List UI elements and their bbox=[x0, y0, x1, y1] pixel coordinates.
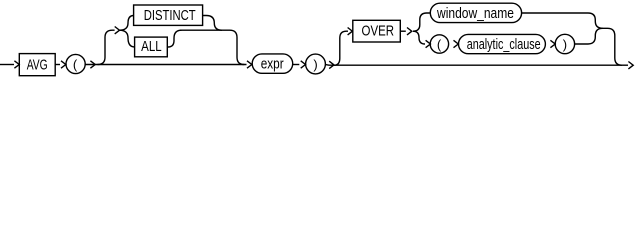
svg-text:(: ( bbox=[437, 37, 442, 52]
svg-text:ALL: ALL bbox=[141, 39, 162, 55]
wire: window_name exit curve down bbox=[522, 13, 603, 28]
arrowhead into analytic_clause bbox=[454, 40, 459, 47]
wire: OVER to split bbox=[400, 30, 406, 32]
wire: main baseline bypass under DISTINCT/ALL bbox=[85, 64, 246, 66]
arrowhead into ( of analytic bbox=[426, 40, 431, 47]
keyword box DISTINCT bbox=[134, 5, 203, 25]
syntax diagram: AVG analytic function bbox=[0, 0, 635, 79]
wire: riser from baseline up to fork mid-line bbox=[98, 30, 115, 64]
wire: DISTINCT exit S-curve down to mid-line bbox=[203, 16, 222, 31]
oval expr bbox=[252, 54, 293, 73]
arrowhead on fork mid-line bbox=[115, 27, 120, 34]
circle ) after analytic_clause bbox=[555, 34, 574, 53]
arrowhead into ( bbox=[61, 61, 66, 68]
wire: split up to window_name bbox=[413, 13, 430, 31]
wire: merge mid-line and descend to baseline bbox=[180, 30, 244, 64]
wire: after ) to end bypass bbox=[326, 64, 628, 67]
svg-text:OVER: OVER bbox=[362, 24, 395, 40]
svg-text:expr: expr bbox=[261, 57, 284, 73]
wire: fork down into ALL bbox=[120, 30, 135, 47]
svg-text:DISTINCT: DISTINCT bbox=[144, 8, 196, 24]
oval window_name bbox=[430, 3, 521, 22]
arrowhead into AVG bbox=[14, 61, 19, 68]
keyword box OVER bbox=[353, 20, 401, 42]
arrowhead into ) bbox=[301, 61, 306, 68]
svg-text:analytic_clause: analytic_clause bbox=[467, 37, 541, 53]
circle ( before analytic_clause bbox=[430, 35, 448, 53]
circle ( after AVG bbox=[66, 54, 85, 73]
arrowhead into OVER bbox=[348, 28, 353, 35]
svg-text:(: ( bbox=[73, 57, 78, 72]
wire: fork up into DISTINCT bbox=[120, 16, 134, 31]
keyword box AVG bbox=[19, 54, 55, 76]
circle ) after expr bbox=[306, 54, 326, 74]
arrowhead into ) of analytic bbox=[550, 40, 555, 47]
arrowhead into expr bbox=[247, 61, 252, 68]
oval analytic_clause bbox=[459, 34, 546, 53]
arrowhead after ) before junction bbox=[329, 61, 334, 68]
arrowhead end of diagram bbox=[628, 62, 633, 69]
arrowhead after OVER at split bbox=[407, 28, 412, 35]
svg-text:): ) bbox=[563, 37, 567, 52]
wire: start baseline bbox=[0, 64, 14, 66]
svg-text:AVG: AVG bbox=[27, 58, 48, 74]
keyword box ALL bbox=[135, 37, 168, 57]
wire: AVG to ( bbox=[55, 64, 60, 66]
svg-text:window_name: window_name bbox=[436, 6, 514, 22]
wire: expr to ) bbox=[293, 64, 300, 66]
wire: merge vertical down to baseline bbox=[601, 28, 622, 65]
wire: branch up to OVER bbox=[334, 31, 348, 65]
svg-text:): ) bbox=[313, 57, 317, 72]
wire: split down to ( analytic_clause bbox=[413, 31, 425, 44]
wire: analytic ) exit S-curve up bbox=[575, 28, 603, 44]
arrowhead after ( at split bbox=[90, 61, 95, 68]
wire: ALL exit S-curve up to mid-line bbox=[167, 30, 181, 47]
